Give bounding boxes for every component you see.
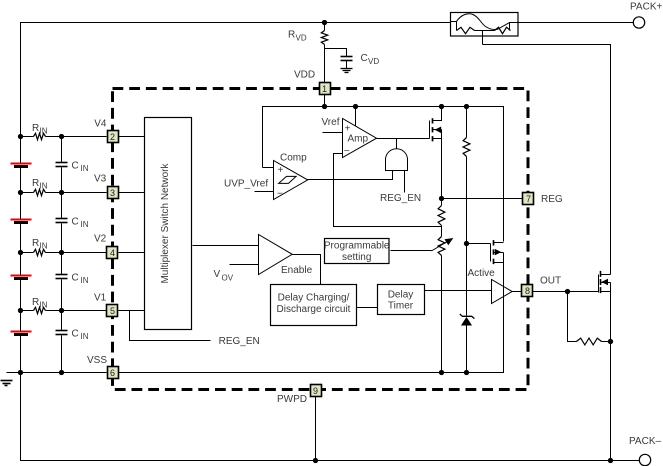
svg-text:−: − <box>344 146 350 157</box>
svg-text:IN: IN <box>81 276 89 285</box>
svg-text:OUT: OUT <box>540 276 561 287</box>
svg-text:setting: setting <box>342 252 371 263</box>
svg-text:Multiplexer Switch Network: Multiplexer Switch Network <box>160 162 171 283</box>
svg-text:R: R <box>288 30 295 41</box>
svg-text:1: 1 <box>322 84 327 94</box>
svg-text:Timer: Timer <box>388 300 414 311</box>
svg-text:R: R <box>32 123 39 134</box>
svg-text:R: R <box>32 178 39 189</box>
svg-text:PACK+: PACK+ <box>630 2 662 13</box>
svg-text:V4: V4 <box>94 119 107 130</box>
svg-text:VD: VD <box>368 57 379 66</box>
svg-text:PWPD: PWPD <box>277 394 307 405</box>
svg-text:7: 7 <box>526 194 531 204</box>
svg-text:IN: IN <box>40 242 48 251</box>
svg-text:IN: IN <box>81 332 89 341</box>
svg-text:3: 3 <box>110 188 115 198</box>
svg-text:V2: V2 <box>94 234 107 245</box>
svg-text:IN: IN <box>40 127 48 136</box>
svg-text:Active: Active <box>468 268 496 279</box>
svg-text:Vref: Vref <box>322 117 340 128</box>
svg-text:REG: REG <box>541 194 563 205</box>
svg-text:C: C <box>72 329 79 340</box>
svg-text:C: C <box>72 217 79 228</box>
svg-text:VDD: VDD <box>294 70 315 81</box>
svg-text:UVP_Vref: UVP_Vref <box>224 179 268 190</box>
svg-text:R: R <box>32 238 39 249</box>
svg-text:V1: V1 <box>94 293 107 304</box>
svg-text:V3: V3 <box>94 174 107 185</box>
svg-text:9: 9 <box>313 386 318 396</box>
svg-text:Discharge circuit: Discharge circuit <box>277 304 351 315</box>
svg-text:Enable: Enable <box>281 265 313 276</box>
svg-text:5: 5 <box>110 306 115 316</box>
svg-text:6: 6 <box>110 368 115 378</box>
svg-text:IN: IN <box>40 182 48 191</box>
svg-text:+: + <box>345 124 351 135</box>
svg-text:C: C <box>361 53 368 64</box>
svg-text:R: R <box>32 297 39 308</box>
svg-text:VSS: VSS <box>87 355 107 366</box>
svg-text:IN: IN <box>81 164 89 173</box>
svg-text:+: + <box>278 165 284 176</box>
svg-text:V: V <box>214 269 221 280</box>
svg-text:C: C <box>72 161 79 172</box>
svg-text:C: C <box>72 273 79 284</box>
svg-text:REG_EN: REG_EN <box>219 336 260 347</box>
svg-text:Programmable: Programmable <box>324 241 390 252</box>
svg-text:−: − <box>277 188 283 199</box>
svg-text:REG_EN: REG_EN <box>380 193 421 204</box>
svg-text:OV: OV <box>222 274 234 283</box>
svg-text:Amp: Amp <box>348 134 369 145</box>
svg-text:IN: IN <box>81 220 89 229</box>
svg-text:Delay Charging/: Delay Charging/ <box>278 292 350 303</box>
svg-text:IN: IN <box>40 301 48 310</box>
svg-text:4: 4 <box>110 248 115 258</box>
svg-text:Delay: Delay <box>388 289 414 300</box>
svg-text:Comp: Comp <box>280 152 307 163</box>
svg-text:8: 8 <box>525 286 530 296</box>
svg-text:VD: VD <box>296 34 307 43</box>
svg-text:PACK–: PACK– <box>629 436 661 447</box>
svg-text:2: 2 <box>110 132 115 142</box>
